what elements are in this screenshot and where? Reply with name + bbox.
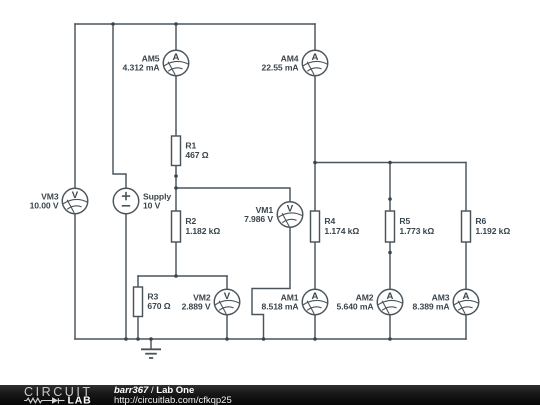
wire top bus (75, 23, 315, 25)
junction supply bottom bus (124, 337, 128, 341)
junction VM1 bottom bus (262, 337, 266, 341)
ammeter AM1 (262, 289, 328, 315)
svg-text:1.773 kΩ: 1.773 kΩ (399, 226, 434, 236)
CircuitLab logo (0, 385, 110, 405)
resistor R6 (462, 211, 511, 242)
svg-text:467 Ω: 467 Ω (185, 150, 208, 160)
junction R5 top lead (388, 197, 392, 201)
svg-text:R3: R3 (147, 291, 158, 301)
voltmeter VM2 (182, 289, 240, 315)
voltmeter VM1 (244, 202, 303, 228)
svg-text:1.192 kΩ: 1.192 kΩ (475, 226, 510, 236)
junction supply top bus (111, 22, 115, 26)
wire R3 VM2 link (138, 275, 227, 277)
wire AM5/R1/R2 branch (175, 24, 177, 276)
ground (141, 339, 161, 358)
wire supply branch (113, 24, 126, 339)
junction R1 bottom (174, 174, 178, 178)
svg-text:R4: R4 (324, 216, 335, 226)
svg-text:A: A (173, 52, 180, 63)
junction right bus left (313, 161, 317, 165)
junction R5 bottom lead (388, 251, 392, 255)
svg-text:V: V (224, 291, 231, 302)
svg-text:V: V (287, 203, 294, 214)
wire VM2 branch (226, 276, 228, 339)
junction VM2 bottom bus (225, 337, 229, 341)
svg-text:10 V: 10 V (143, 200, 161, 210)
ammeter AM5 (123, 50, 189, 76)
svg-text:A: A (312, 52, 319, 63)
svg-text:2.889 V: 2.889 V (182, 301, 211, 311)
svg-text:A: A (312, 291, 319, 302)
svg-text:22.55 mA: 22.55 mA (262, 62, 299, 72)
svg-text:670 Ω: 670 Ω (147, 301, 170, 311)
junction right bus R5 (388, 161, 392, 165)
wire R6/AM3 branch (465, 163, 467, 340)
junction node to VM1 (174, 186, 178, 190)
junction AM1 bottom bus (313, 337, 317, 341)
svg-text:R6: R6 (475, 216, 486, 226)
svg-text:R5: R5 (399, 216, 410, 226)
ammeter AM3 (413, 289, 479, 315)
wire right top bus (315, 162, 466, 164)
svg-text:8.389 mA: 8.389 mA (413, 301, 450, 311)
svg-text:V: V (72, 190, 79, 201)
svg-text:R1: R1 (185, 140, 196, 150)
svg-text:5.640 mA: 5.640 mA (337, 301, 374, 311)
junction ground bus (149, 337, 153, 341)
junction AM2 bottom bus (388, 337, 392, 341)
resistor R5 (386, 211, 435, 242)
wire R3 branch (137, 276, 139, 339)
wire R5/AM2 branch (389, 163, 391, 340)
wire VM3 branch (74, 24, 76, 339)
resistor R4 (311, 211, 360, 242)
ammeter AM4 (262, 50, 328, 76)
svg-text:LAB: LAB (68, 394, 92, 405)
svg-text:7.986 V: 7.986 V (244, 214, 273, 224)
source Supply (113, 188, 171, 214)
svg-text:R2: R2 (185, 216, 196, 226)
svg-text:A: A (463, 291, 470, 302)
junction R3 bottom bus (136, 337, 140, 341)
footer bar (0, 385, 540, 405)
resistor R2 (172, 211, 221, 242)
junction AM5 top bus (174, 22, 178, 26)
resistor R3 (134, 287, 171, 317)
junction R2 bottom (174, 274, 178, 278)
ammeter AM2 (337, 289, 403, 315)
wire AM4/R4/AM1 branch (314, 24, 316, 339)
svg-text:1.174 kΩ: 1.174 kΩ (324, 226, 359, 236)
resistor R1 (172, 136, 209, 166)
svg-text:10.00 V: 10.00 V (30, 200, 59, 210)
wire to VM1 (176, 188, 290, 339)
wire bottom bus (75, 338, 466, 340)
voltmeter VM3 (30, 188, 88, 214)
svg-text:4.312 mA: 4.312 mA (123, 62, 160, 72)
svg-text:1.182 kΩ: 1.182 kΩ (185, 226, 220, 236)
svg-text:A: A (387, 291, 394, 302)
svg-text:8.518 mA: 8.518 mA (262, 301, 299, 311)
